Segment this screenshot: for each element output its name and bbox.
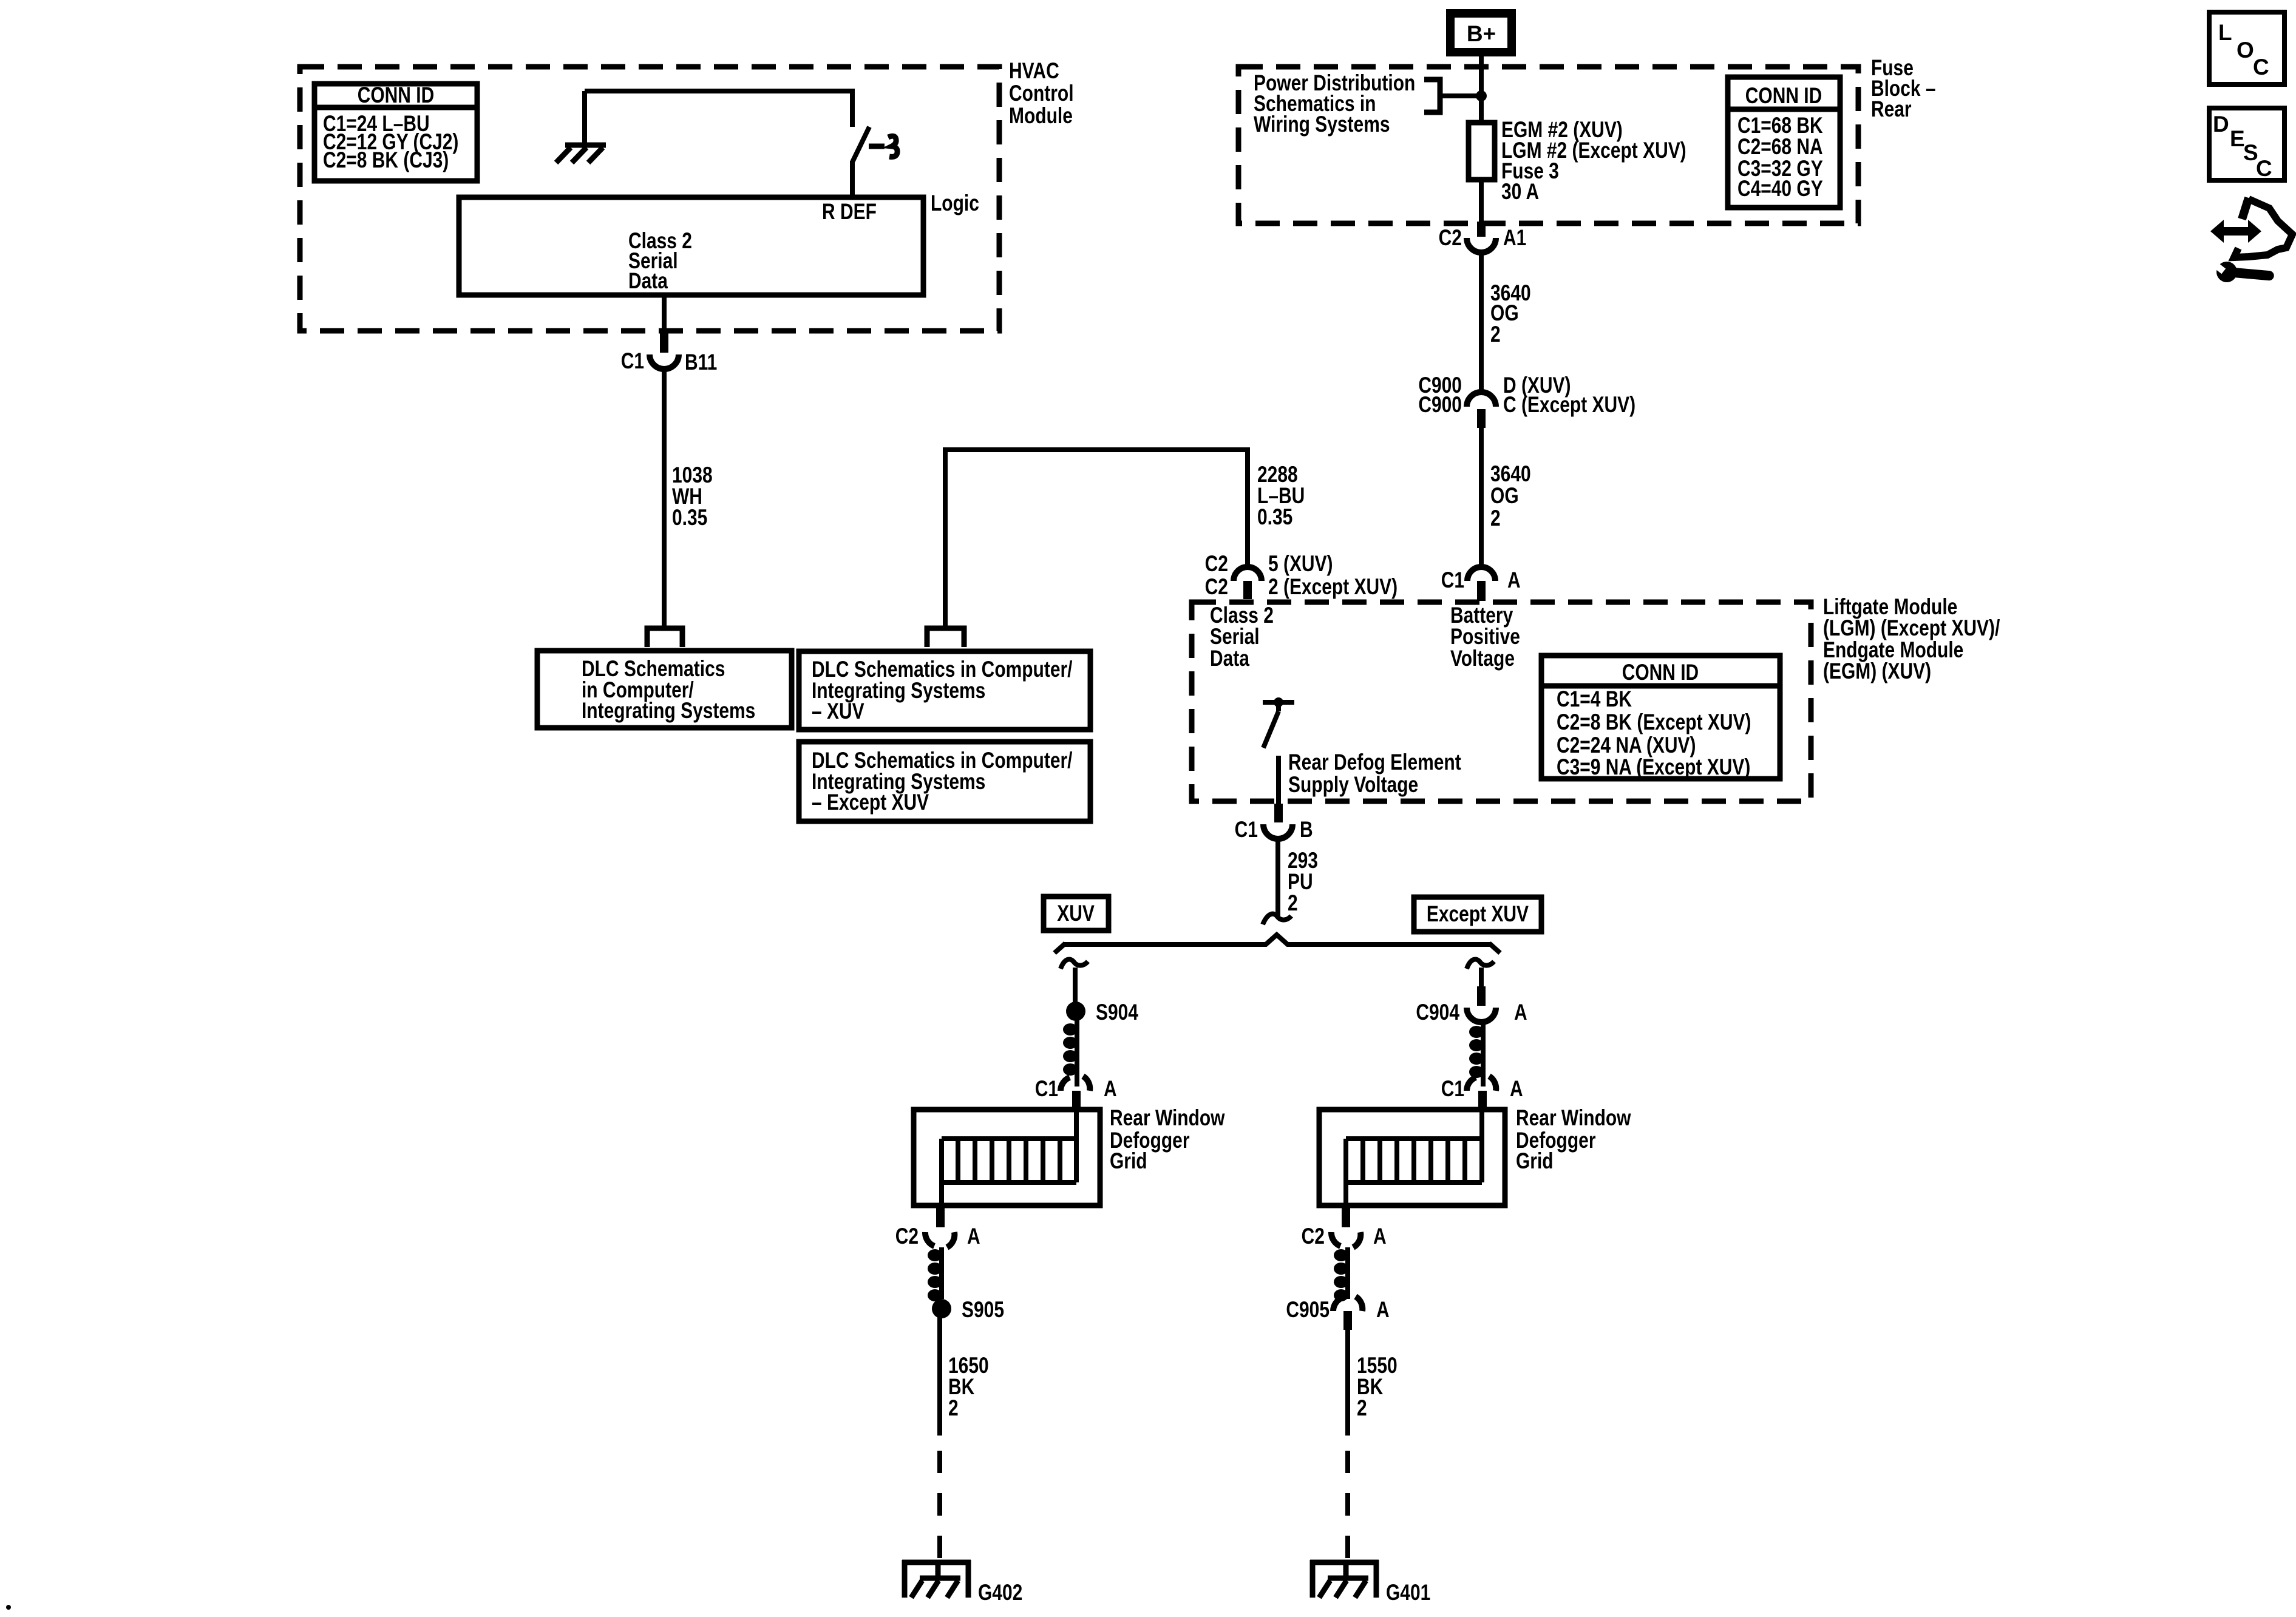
table CONN ID (Fuse Block)	[1728, 77, 1840, 208]
wire XUV branch top curl	[1061, 959, 1088, 1005]
node bracket to DLC XUV box	[927, 628, 964, 647]
svg-text:A: A	[1507, 568, 1521, 593]
svg-text:C2=8 BK (CJ3): C2=8 BK (CJ3)	[323, 148, 449, 173]
svg-text:Integrating Systems: Integrating Systems	[582, 699, 755, 724]
svg-text:C3=9 NA (Except XUV): C3=9 NA (Except XUV)	[1557, 755, 1750, 780]
label Liftgate Module / Endgate Module	[1823, 595, 2000, 684]
svg-text:Grid: Grid	[1516, 1149, 1554, 1174]
svg-text:G401: G401	[1386, 1581, 1430, 1605]
connector C2 A (right)	[1302, 1205, 1387, 1249]
svg-text:C1: C1	[1441, 1077, 1464, 1102]
box DLC Schematics XUV	[799, 651, 1090, 730]
module box HVAC Control Module	[300, 67, 999, 331]
svg-text:Positive: Positive	[1450, 625, 1520, 649]
svg-text:Wiring Systems: Wiring Systems	[1254, 112, 1390, 137]
battery feed B+	[1446, 9, 1516, 56]
svg-text:– Except XUV: – Except XUV	[812, 790, 929, 815]
svg-text:C1: C1	[1441, 568, 1464, 593]
svg-text:Control: Control	[1009, 81, 1073, 106]
svg-text:30 A: 30 A	[1501, 180, 1539, 205]
label R DEF	[822, 200, 877, 225]
svg-text:Logic: Logic	[931, 191, 979, 216]
svg-text:2: 2	[1490, 506, 1501, 531]
svg-text:OG: OG	[1490, 484, 1519, 509]
svg-text:G402: G402	[978, 1581, 1022, 1605]
svg-text:C905: C905	[1286, 1298, 1330, 1323]
wire ground to switch	[585, 91, 852, 127]
node bracket to DLC box	[647, 628, 682, 647]
wire 1038 WH 0.35	[664, 369, 713, 628]
svg-text:Supply Voltage: Supply Voltage	[1288, 773, 1418, 798]
svg-text:A: A	[1373, 1224, 1387, 1249]
component Rear Window Defogger Grid (XUV)	[914, 1106, 1225, 1205]
svg-text:C1: C1	[1035, 1077, 1058, 1102]
coil (XUV upper)	[1063, 1020, 1078, 1086]
connector C1 B	[1235, 804, 1313, 842]
svg-text:A: A	[1514, 1000, 1527, 1025]
label Power Distribution Schematics in Wiring Systems	[1254, 71, 1481, 137]
icon LOC	[2209, 12, 2284, 84]
switch rear defog (LGM internal)	[1263, 697, 1294, 804]
split brace	[1055, 935, 1500, 953]
connector C1 A (right grid)	[1441, 1076, 1523, 1110]
svg-text:A: A	[1376, 1298, 1390, 1323]
label Logic	[931, 191, 979, 216]
svg-text:CONN ID: CONN ID	[358, 83, 434, 108]
junction node	[1476, 90, 1487, 101]
svg-text:3640: 3640	[1490, 462, 1531, 487]
table CONN ID (LGM/EGM)	[1541, 656, 1780, 780]
svg-text:Rear Window: Rear Window	[1110, 1106, 1225, 1131]
wire fuse to connector	[1479, 180, 1484, 223]
svg-text:0.35: 0.35	[1257, 505, 1292, 530]
icon DESC	[2209, 108, 2284, 181]
svg-text:B+: B+	[1467, 21, 1496, 46]
svg-text:C2: C2	[1302, 1224, 1325, 1249]
svg-text:(LGM) (Except XUV)/: (LGM) (Except XUV)/	[1823, 616, 2000, 641]
svg-text:C: C	[2256, 156, 2272, 181]
svg-text:C: C	[2253, 55, 2269, 80]
svg-text:A: A	[967, 1224, 980, 1249]
svg-text:Except XUV: Except XUV	[1427, 902, 1529, 927]
switch R DEF	[852, 127, 897, 197]
label box Except XUV	[1414, 897, 1541, 932]
svg-text:2: 2	[1288, 891, 1298, 916]
svg-text:2 (Except XUV): 2 (Except XUV)	[1268, 575, 1398, 600]
logic box Class 2 Serial Data	[459, 197, 923, 295]
svg-text:L: L	[2218, 20, 2232, 45]
coil (right upper)	[1469, 1022, 1484, 1086]
svg-text:5 (XUV): 5 (XUV)	[1268, 552, 1333, 577]
svg-text:Serial: Serial	[1210, 625, 1260, 649]
label Battery Positive Voltage	[1450, 603, 1520, 671]
wire 2288 L-BU 0.35	[945, 450, 1305, 626]
coil (right lower)	[1334, 1247, 1348, 1301]
ground G401	[1310, 1560, 1430, 1605]
connector C2 5/2 (class 2 serial data)	[1205, 552, 1398, 600]
svg-text:2: 2	[1357, 1396, 1367, 1421]
splice S904	[1066, 1000, 1138, 1025]
svg-text:C2: C2	[895, 1224, 919, 1249]
wire 1650 BK 2	[940, 1317, 989, 1560]
ground G402	[902, 1560, 1022, 1605]
coil (left lower)	[928, 1247, 942, 1301]
wire B+ to fuse	[1479, 56, 1484, 123]
svg-text:Module: Module	[1009, 104, 1073, 129]
svg-text:C2: C2	[1205, 575, 1228, 600]
fuse EGM #2 / LGM #2 Fuse 3 30 A	[1469, 118, 1686, 205]
stray dot (print artifact)	[6, 1605, 11, 1610]
label box XUV	[1044, 897, 1109, 931]
svg-text:Rear Window: Rear Window	[1516, 1106, 1631, 1131]
icon vehicle with arrow and wrench	[2210, 198, 2292, 282]
box DLC Schematics in Computer/Integrating Systems	[537, 651, 792, 728]
module box Liftgate Module (LGM) / Endgate Module (EGM)	[1192, 602, 1811, 801]
svg-text:(EGM) (XUV): (EGM) (XUV)	[1823, 659, 1931, 684]
splice S905	[932, 1298, 1004, 1323]
wire Except XUV branch top curl	[1467, 959, 1494, 1006]
label Fuse Block - Rear	[1871, 56, 1936, 122]
label Class 2 Serial Data (LGM)	[1210, 603, 1274, 671]
svg-text:E: E	[2230, 126, 2245, 151]
svg-text:– XUV: – XUV	[812, 699, 864, 724]
svg-text:B: B	[1300, 818, 1313, 842]
svg-text:A1: A1	[1503, 226, 1526, 251]
svg-text:C (Except XUV): C (Except XUV)	[1503, 393, 1635, 418]
svg-text:C2: C2	[1205, 552, 1228, 577]
svg-text:O: O	[2237, 38, 2254, 63]
svg-text:C2=68 NA: C2=68 NA	[1737, 135, 1823, 160]
svg-text:XUV: XUV	[1057, 901, 1095, 926]
connector C1 B11	[621, 295, 718, 375]
svg-text:CONN ID: CONN ID	[1745, 84, 1822, 109]
svg-text:2: 2	[1490, 322, 1501, 347]
svg-text:C900: C900	[1418, 393, 1462, 418]
connector C1 A (left grid)	[1035, 0, 1467, 1110]
connector C1 A (battery input LGM)	[1441, 567, 1521, 601]
svg-text:B11: B11	[685, 350, 717, 375]
svg-text:R DEF: R DEF	[822, 200, 877, 225]
svg-text:Rear Defog Element: Rear Defog Element	[1288, 750, 1461, 775]
ground (HVAC internal)	[556, 91, 606, 163]
svg-text:Rear: Rear	[1871, 97, 1912, 122]
module box Fuse Block - Rear	[1238, 67, 1858, 223]
box DLC Schematics Except XUV	[799, 742, 1090, 821]
wire 1550 BK 2	[1348, 1330, 1398, 1560]
svg-text:C2=8 BK (Except XUV): C2=8 BK (Except XUV)	[1557, 710, 1751, 735]
svg-text:0.35: 0.35	[672, 506, 707, 531]
svg-text:C4=40 GY: C4=40 GY	[1737, 177, 1823, 202]
connector C905 A	[1286, 1297, 1389, 1330]
connector C900	[1418, 373, 1635, 428]
label HVAC Control Module	[1009, 59, 1073, 129]
svg-text:Voltage: Voltage	[1450, 646, 1515, 671]
wire 3640 OG 2 (upper)	[1481, 253, 1531, 393]
svg-text:D: D	[2213, 112, 2229, 137]
svg-text:C2: C2	[1439, 226, 1462, 251]
svg-text:C2=24 NA (XUV): C2=24 NA (XUV)	[1557, 733, 1696, 758]
connector C904 A	[1416, 1000, 1527, 1025]
wire 3640 OG 2 (lower)	[1481, 428, 1531, 566]
svg-text:S904: S904	[1096, 1000, 1138, 1025]
svg-text:2: 2	[948, 1396, 959, 1421]
wire 293 PU 2	[1263, 839, 1318, 924]
table CONN ID (HVAC)	[314, 83, 477, 181]
component Rear Window Defogger Grid (Except XUV)	[1319, 1106, 1631, 1205]
svg-text:C1=4 BK: C1=4 BK	[1557, 687, 1632, 712]
svg-text:Data: Data	[1210, 646, 1249, 671]
svg-text:HVAC: HVAC	[1009, 59, 1059, 84]
svg-text:C904: C904	[1416, 1000, 1459, 1025]
svg-text:C1: C1	[621, 349, 644, 374]
svg-text:Grid: Grid	[1110, 1149, 1147, 1174]
connector C2 A (left)	[895, 1205, 980, 1249]
svg-text:Data: Data	[628, 269, 668, 294]
connector C2 A1	[1439, 222, 1527, 253]
svg-text:CONN ID: CONN ID	[1622, 660, 1699, 685]
svg-text:A: A	[1104, 1077, 1117, 1102]
svg-text:S905: S905	[962, 1298, 1004, 1323]
label Rear Defog Element Supply Voltage	[1288, 750, 1461, 798]
svg-text:A: A	[1510, 1077, 1523, 1102]
svg-text:C1: C1	[1235, 818, 1258, 842]
